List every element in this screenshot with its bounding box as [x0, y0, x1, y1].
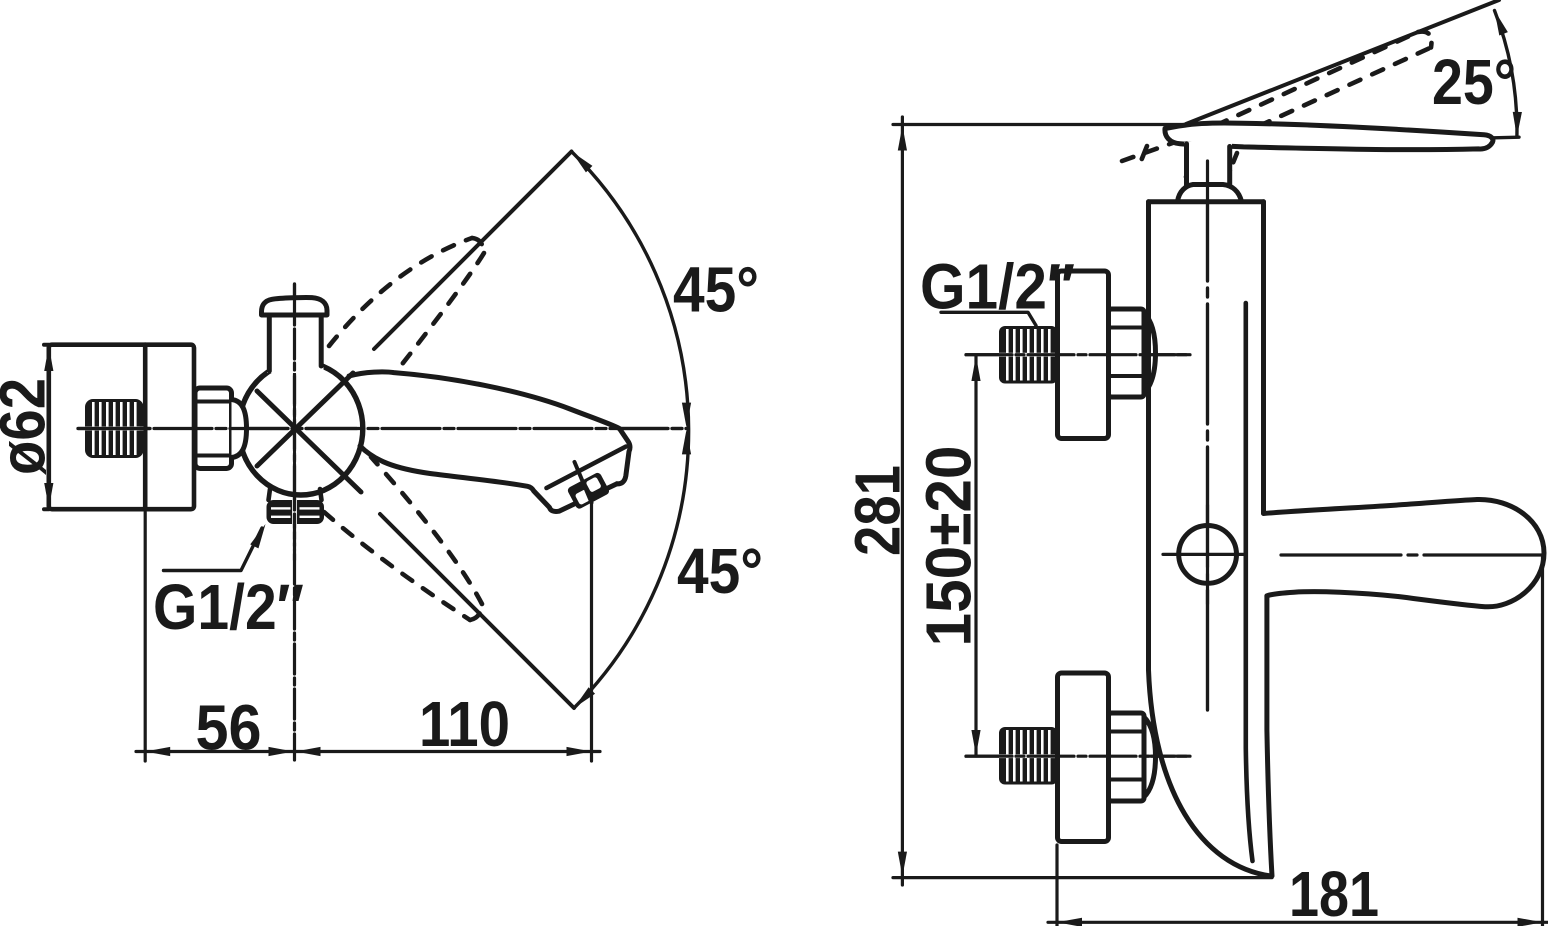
svg-text:110: 110	[419, 688, 510, 760]
leader G12 left	[164, 528, 263, 571]
svg-text:G1/2″: G1/2″	[920, 251, 1075, 323]
upper thread nipple	[999, 326, 1058, 384]
ray 45 up	[374, 152, 572, 350]
svg-text:45°: 45°	[677, 535, 763, 607]
valve cross line NW-SE	[257, 391, 361, 492]
dimension line 150+-20	[974, 355, 977, 756]
cap crosshair horizontal	[1163, 553, 1244, 556]
spout body fill	[349, 372, 630, 511]
thread centerline over	[78, 427, 150, 430]
extension line 56 left	[144, 512, 147, 761]
body left edge and bottom curve	[1149, 202, 1272, 876]
dashed spout rotated up tip	[472, 238, 484, 253]
spout blade side fill	[1264, 499, 1545, 606]
hex nut front	[195, 388, 232, 469]
nut facet top	[195, 400, 232, 404]
bottom centerline over band	[293, 496, 296, 560]
wall flange front	[49, 345, 194, 510]
dashed raised handle top edge	[1193, 32, 1418, 136]
body centerline overlay	[1206, 161, 1209, 713]
body dome	[1178, 185, 1242, 202]
cover cap circle	[1179, 526, 1237, 584]
dashed raised handle end cap	[1418, 32, 1431, 48]
dashed raised handle bottom edge	[1213, 48, 1431, 148]
dashed spout rotated up lower edge	[377, 253, 484, 396]
dashed raised handle back end	[1122, 140, 1181, 161]
handle cap front	[262, 297, 328, 315]
extension line 181 right	[1541, 557, 1544, 926]
extension line 110 right	[590, 503, 593, 761]
aerator body	[566, 471, 610, 510]
body inner edge	[1246, 303, 1253, 861]
dashed raised stem edges	[1183, 150, 1197, 184]
svg-text:45°: 45°	[673, 254, 759, 326]
extension line 181 left	[1055, 845, 1058, 926]
25 deg upper leg	[1186, 0, 1499, 124]
arrow arc at centerline upper	[682, 403, 691, 428]
handle stem white fill	[1184, 142, 1232, 190]
handle stem left edge	[1184, 144, 1189, 188]
spout blade side outline	[1264, 499, 1545, 606]
arrow arc bottom	[571, 687, 595, 711]
collar	[232, 400, 247, 458]
svg-text:181: 181	[1289, 858, 1379, 926]
bottom outlet thread band	[267, 500, 325, 524]
body right edge above spout	[1261, 202, 1266, 513]
angle arc 45	[572, 152, 689, 709]
aerator axis tick	[575, 462, 592, 503]
vertical centerline overlay	[293, 376, 296, 497]
flange divider	[143, 345, 148, 510]
spout bottom edge	[360, 446, 617, 512]
spout top edge	[349, 372, 630, 484]
valve body fill	[239, 362, 363, 495]
aerator top edge	[547, 447, 627, 489]
nut facet bottom	[195, 454, 232, 458]
dashed raised handle back tick	[1139, 146, 1147, 166]
handle stem front white fill	[267, 312, 324, 373]
upper connection centerline	[966, 353, 1190, 356]
svg-text:56: 56	[196, 692, 262, 764]
handle stem right edge	[1227, 147, 1232, 188]
dashed spout rotated down upper edge	[371, 457, 482, 604]
25 deg lower leg	[1494, 135, 1519, 139]
svg-text:ø62: ø62	[0, 378, 59, 475]
svg-text:G1/2″: G1/2″	[153, 571, 304, 643]
extension line 281 bottom	[893, 876, 1272, 879]
upper wall flange	[1058, 271, 1109, 439]
lower hex nut	[1109, 713, 1145, 801]
dimension line 56-110	[136, 750, 600, 753]
svg-text:25°: 25°	[1432, 46, 1516, 118]
leader G12 right	[941, 312, 1036, 325]
upper connection centerline overlay	[966, 353, 1190, 356]
svg-text:281: 281	[842, 465, 914, 556]
lower thread nipple	[999, 727, 1058, 785]
dashed spout rotated down tip	[470, 604, 482, 620]
handle lever side	[1165, 123, 1493, 150]
body top edge	[1149, 199, 1264, 204]
upper hex nut	[1109, 309, 1145, 397]
bottom outlet neck left	[269, 489, 271, 500]
spout right edge	[1267, 596, 1272, 876]
horizontal centerline overlay	[78, 427, 688, 430]
lower connection centerline overlay	[966, 755, 1190, 758]
spout blade centerline	[1281, 553, 1543, 556]
flange top edge overshoot	[44, 343, 49, 347]
handle stem front left edge	[267, 315, 272, 371]
centerline through handle stem	[293, 284, 296, 374]
valve cross line SW-NE	[257, 373, 353, 466]
ray 45 down	[380, 514, 574, 708]
handle stem front right edge	[319, 315, 324, 366]
thread nipple front	[85, 399, 144, 458]
body centerline	[1206, 161, 1209, 713]
arrow arc top	[568, 148, 592, 172]
lower connection centerline	[966, 755, 1190, 758]
bottom outlet neck right	[320, 489, 322, 500]
dim line o62 arrows	[44, 346, 53, 371]
arrow arc at centerline lower	[682, 429, 691, 454]
extension line 281 top	[893, 123, 1186, 126]
dimension line 181	[1048, 921, 1548, 924]
lower wall flange	[1058, 673, 1109, 842]
wire vertical centerline	[293, 284, 296, 760]
cap crosshair vertical	[1206, 505, 1209, 604]
dashed spout rotated down lower edge	[324, 512, 470, 620]
25 deg arc	[1495, 11, 1517, 137]
flange bottom edge overshoot	[44, 507, 49, 511]
wire horizontal centerline	[78, 427, 688, 430]
valve body outline	[239, 362, 363, 495]
dashed spout rotated up 45 upper edge	[329, 238, 472, 346]
dimension line 281	[901, 117, 904, 885]
svg-text:150±20: 150±20	[913, 446, 985, 647]
